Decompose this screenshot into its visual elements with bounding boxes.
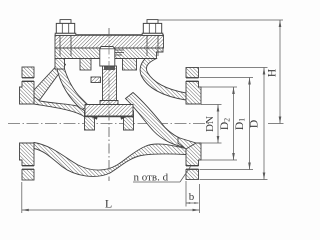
left flange top section — [22, 67, 34, 78]
bonnet cover top edge — [55, 34, 164, 36]
body bottom wall — [34, 143, 186, 177]
right flange top section — [186, 68, 199, 78]
seat ring right — [124, 111, 134, 130]
svg-text:DN: DN — [204, 116, 216, 132]
L extension right — [199, 184, 201, 213]
dimension DN — [201, 104, 222, 106]
right flange hub fillet — [178, 138, 196, 150]
svg-text:D: D — [249, 120, 261, 128]
seat seam right arrow — [120, 117, 127, 120]
seat ring left — [85, 111, 95, 130]
vertical centerline overlay — [108, 28, 110, 181]
body flange left step — [55, 59, 65, 70]
svg-text:b: b — [189, 191, 195, 203]
bolt left washer — [55, 33, 76, 35]
left flange bottom section — [22, 170, 34, 181]
vertical centerline — [108, 28, 110, 181]
left flange bolt hole upper — [22, 77, 34, 79]
body left neck wall — [57, 69, 88, 110]
bolt right washer — [142, 33, 163, 35]
right flange upper mid section — [186, 82, 201, 105]
bolt right stud — [147, 20, 158, 24]
bolt right nut — [143, 23, 161, 33]
body inlet top wall — [34, 97, 88, 118]
valve stem — [103, 66, 117, 101]
H extension line top — [158, 19, 283, 21]
seat seam left arrow — [91, 117, 98, 120]
guide bushing — [100, 47, 115, 67]
bolt left nut — [56, 23, 74, 33]
bonnet cover flange — [55, 35, 164, 48]
dimension D2 — [200, 86, 238, 88]
horizontal pipe centerline — [8, 123, 210, 125]
stem lock nut — [91, 77, 101, 83]
left flange lower mid section — [20, 143, 35, 166]
dimension H line — [279, 20, 281, 124]
dimension D1 — [200, 77, 254, 79]
body top flange — [55, 48, 163, 59]
bonnet skirt left wall — [80, 59, 91, 71]
b extension left — [185, 181, 187, 207]
disc boss — [100, 101, 118, 105]
stem retainer — [104, 66, 115, 70]
body outlet bottom S-wall — [126, 93, 191, 149]
dimension b line — [186, 202, 199, 204]
right flange bolt hole upper — [186, 77, 199, 79]
valve disc — [85, 105, 133, 117]
right flange bottom section — [186, 170, 199, 180]
bonnet skirt right wall — [123, 59, 137, 71]
guide bracket lines — [115, 49, 124, 51]
dimension D — [200, 67, 268, 69]
seat seam line — [85, 116, 134, 118]
svg-text:L: L — [105, 197, 112, 211]
body left web strut — [34, 61, 66, 103]
svg-text:D1: D1 — [234, 118, 246, 130]
bolt left stud — [60, 20, 71, 24]
right flange bolt hole lower — [186, 165, 199, 167]
left flange upper mid section — [20, 82, 35, 105]
svg-text:H: H — [267, 69, 279, 77]
right flange lower mid section — [186, 143, 201, 166]
H extension tick bottom — [268, 123, 284, 125]
dimension L line — [22, 209, 200, 211]
L extension left — [21, 182, 23, 213]
body right outer wall — [140, 56, 186, 100]
left flange bolt hole lower — [22, 165, 34, 167]
svg-text:D2: D2 — [219, 118, 231, 130]
